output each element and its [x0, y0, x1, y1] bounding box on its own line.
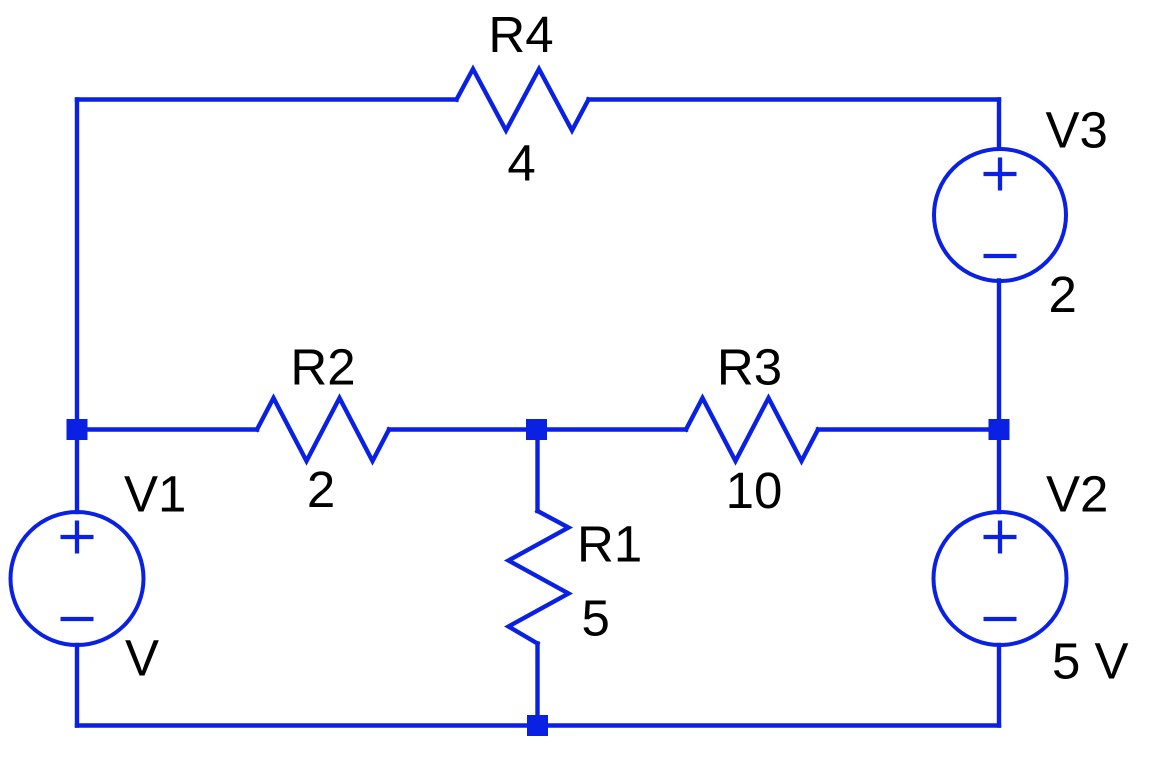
- svg-text:10: 10: [726, 462, 783, 519]
- wire V2 top stem: [997, 430, 1001, 513]
- wire V3 top stem: [997, 100, 1001, 149]
- wire middle rail node A to R2: [77, 427, 257, 431]
- wire V2 bottom stem: [997, 645, 1001, 726]
- node A junction square: [67, 419, 88, 440]
- voltage source V1: [11, 512, 144, 645]
- svg-text:2: 2: [307, 461, 335, 518]
- wire left column (top-left corner down to node A): [75, 100, 79, 430]
- svg-text:R2: R2: [290, 339, 355, 396]
- label R4 name: [488, 6, 553, 63]
- svg-text:R3: R3: [717, 339, 782, 396]
- wire top rail left segment: [77, 97, 457, 101]
- wire V1 bottom stem: [75, 645, 79, 726]
- node D junction square (bottom rail): [527, 715, 548, 736]
- wire middle rail node B to R3: [537, 427, 687, 431]
- label R4 value 4: [507, 135, 535, 192]
- svg-text:V: V: [125, 630, 159, 687]
- resistor R3: [686, 398, 818, 461]
- svg-text:2: 2: [1049, 266, 1077, 323]
- svg-text:5 V: 5 V: [1052, 633, 1129, 690]
- label R3 value 10: [726, 462, 783, 519]
- label V2 value 5 V: [1052, 633, 1129, 690]
- wire bottom rail: [77, 723, 999, 727]
- resistor R4: [457, 69, 589, 131]
- label V1 value V: [125, 630, 159, 687]
- wire middle rail R2 to node B: [389, 427, 537, 431]
- wire V3 bottom stem: [997, 281, 1001, 430]
- node C junction square: [989, 419, 1010, 440]
- label V3 name: [1046, 102, 1108, 159]
- label R2 value 2: [307, 461, 335, 518]
- svg-text:V1: V1: [124, 466, 186, 523]
- wire R1 bottom stem: [535, 644, 539, 726]
- wire R1 top stem: [535, 430, 539, 512]
- svg-text:V2: V2: [1046, 466, 1108, 523]
- label R2 name: [290, 339, 355, 396]
- label V3 value 2: [1049, 266, 1077, 323]
- resistor R2: [257, 398, 389, 461]
- label V2 name: [1046, 466, 1108, 523]
- svg-text:V3: V3: [1046, 102, 1108, 159]
- label V1 name: [124, 466, 186, 523]
- node B junction square: [526, 419, 547, 440]
- svg-text:R1: R1: [577, 516, 642, 573]
- label R1 value 5: [582, 590, 610, 647]
- wire V1 top stem: [75, 430, 79, 513]
- label R3 name: [717, 339, 782, 396]
- svg-text:4: 4: [507, 135, 535, 192]
- resistor R1: [509, 511, 569, 644]
- voltage source V3: [934, 149, 1066, 281]
- svg-text:R4: R4: [488, 6, 553, 63]
- wire top rail right segment: [589, 97, 1000, 101]
- voltage source V2: [934, 512, 1067, 645]
- label R1 name: [577, 516, 642, 573]
- svg-text:5: 5: [582, 590, 610, 647]
- wire middle rail R3 to node C: [818, 427, 999, 431]
